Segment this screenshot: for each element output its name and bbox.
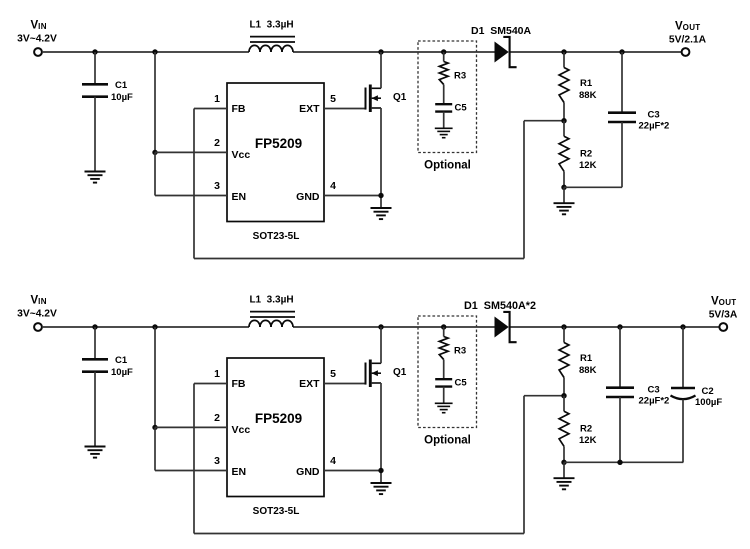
junction divider bottom (bottom) xyxy=(561,460,566,465)
label C1 (top) xyxy=(115,80,128,91)
svg-text:R2: R2 xyxy=(580,423,592,434)
pin label EN (top) xyxy=(232,191,247,203)
svg-text:L1 3.3µH: L1 3.3µH xyxy=(249,294,293,305)
node VIN terminal (bottom) xyxy=(34,323,42,331)
wire Vcc to pin 2 (bottom) xyxy=(155,426,227,428)
label R2 (top) xyxy=(580,148,592,159)
ground Q1 (top) xyxy=(371,208,392,219)
pin label FB (bottom) xyxy=(232,378,246,390)
label C3 (top) xyxy=(648,109,660,120)
junction Q1 source / GND pin (bottom) xyxy=(378,468,383,473)
svg-text:Optional: Optional xyxy=(424,160,471,172)
label Q1 (bottom) xyxy=(393,367,407,378)
pin label Vcc (top) xyxy=(232,149,251,161)
svg-text:3: 3 xyxy=(214,180,220,192)
inductor L1 (top) xyxy=(249,37,295,52)
svg-text:GND: GND xyxy=(296,466,320,478)
pin number 2 (top) xyxy=(214,137,220,149)
label FP5209 (bottom) xyxy=(255,411,302,426)
svg-text:VIN: VIN xyxy=(31,20,47,32)
label Optional (bottom) xyxy=(424,435,471,447)
ground C1 (top) xyxy=(85,172,106,183)
wire divider to ground (bottom) xyxy=(563,462,565,478)
svg-text:5: 5 xyxy=(330,368,336,380)
wire input rail (top) xyxy=(42,51,249,53)
label R2 value 12K (top) xyxy=(579,160,597,171)
wire Vcc-EN vertical (top) xyxy=(154,152,156,195)
svg-text:3V~4.2V: 3V~4.2V xyxy=(17,309,57,320)
ground divider (bottom) xyxy=(554,478,575,489)
pin number 4 (top) xyxy=(330,180,336,192)
label D1 SM540A (top) xyxy=(471,25,532,37)
junction R1/rail (bottom) xyxy=(561,324,566,329)
svg-text:VIN: VIN xyxy=(31,295,47,307)
label R1 (top) xyxy=(580,78,593,89)
pin number 3 (top) xyxy=(214,180,220,192)
svg-text:D1 SM540A*2: D1 SM540A*2 xyxy=(464,300,536,312)
junction R3/rail (bottom) xyxy=(441,324,446,329)
svg-text:FB: FB xyxy=(232,378,246,390)
svg-text:88K: 88K xyxy=(579,365,597,376)
label Optional (top) xyxy=(424,160,471,172)
svg-text:100µF: 100µF xyxy=(695,397,722,408)
wire ground rail (top) xyxy=(564,186,622,188)
svg-text:L1 3.3µH: L1 3.3µH xyxy=(249,19,293,30)
resistor R1 (bottom) xyxy=(559,327,569,396)
junction C2/rail (bottom) xyxy=(680,324,685,329)
resistor R1 (top) xyxy=(559,52,569,121)
wire feedback bottom (bottom) xyxy=(194,533,524,535)
junction Vcc pin (bottom) xyxy=(152,425,157,430)
op-amp U1 FP5209 body (bottom) xyxy=(227,358,324,497)
svg-text:5: 5 xyxy=(330,93,336,105)
junction Vcc branch (top) xyxy=(152,49,157,54)
label VIN value 3V~4.2V (bottom) xyxy=(17,309,57,320)
svg-text:2: 2 xyxy=(214,137,220,149)
label R3 (top) xyxy=(454,71,466,82)
svg-text:Q1: Q1 xyxy=(393,367,407,378)
wire rail inductor-to-diode (bottom) xyxy=(293,326,495,328)
svg-text:Optional: Optional xyxy=(424,435,471,447)
ground divider (top) xyxy=(554,203,575,214)
pin label Vcc (bottom) xyxy=(232,424,251,436)
pin number 3 (bottom) xyxy=(214,455,220,467)
optional dashed box (top) xyxy=(418,41,477,153)
svg-text:EN: EN xyxy=(232,466,247,478)
svg-text:C1: C1 xyxy=(115,80,128,91)
optional dashed box (bottom) xyxy=(418,316,477,428)
wire FB vertical left (top) xyxy=(193,109,195,259)
wire GND pin 4 (top) xyxy=(324,195,381,197)
wire feedback to divider (bottom) xyxy=(524,395,564,397)
diode D1 (bottom) xyxy=(495,312,517,342)
junction C3/rail (top) xyxy=(619,49,624,54)
svg-text:R3: R3 xyxy=(454,346,466,357)
label VOUT value 5V/2.1A (top) xyxy=(669,35,707,46)
junction divider mid (top) xyxy=(561,118,566,123)
svg-text:Vcc: Vcc xyxy=(232,424,251,436)
label C2 value 100µF (bottom) xyxy=(695,397,722,408)
wire Vcc to pin 2 (top) xyxy=(155,151,227,153)
svg-text:Vcc: Vcc xyxy=(232,149,251,161)
wire FB vertical left (bottom) xyxy=(193,384,195,534)
svg-text:C2: C2 xyxy=(702,386,714,397)
capacitor C5 (bottom) xyxy=(435,379,452,403)
svg-text:FP5209: FP5209 xyxy=(255,411,302,426)
junction Vcc pin (top) xyxy=(152,150,157,155)
pin label EXT (top) xyxy=(299,103,320,115)
node VOUT terminal (bottom) xyxy=(719,323,727,331)
svg-text:12K: 12K xyxy=(579,160,597,171)
junction R3/rail (top) xyxy=(441,49,446,54)
svg-text:C5: C5 xyxy=(455,377,468,388)
pin number 5 (top) xyxy=(330,93,336,105)
wire rail inductor-to-diode (top) xyxy=(293,51,495,53)
diode D1 (top) xyxy=(495,37,517,67)
wire divider to ground (top) xyxy=(563,187,565,203)
svg-text:EXT: EXT xyxy=(299,378,320,390)
capacitor C3 (bottom) xyxy=(606,327,634,462)
svg-text:EXT: EXT xyxy=(299,103,320,115)
label VIN (bottom) xyxy=(31,295,47,307)
resistor R3 (top) xyxy=(439,52,448,104)
pin number 1 (bottom) xyxy=(214,368,220,380)
pin label GND (top) xyxy=(296,191,320,203)
node VOUT terminal (top) xyxy=(682,48,690,56)
inductor L1 (bottom) xyxy=(249,312,295,327)
ground C1 (bottom) xyxy=(85,447,106,458)
label R2 (bottom) xyxy=(580,423,592,434)
svg-text:R1: R1 xyxy=(580,78,593,89)
label VOUT (bottom) xyxy=(711,296,736,308)
pin label GND (bottom) xyxy=(296,466,320,478)
wire feedback vertical right (top) xyxy=(523,121,525,259)
svg-text:12K: 12K xyxy=(579,435,597,446)
wire Q1 drain (top) xyxy=(380,52,382,88)
wire feedback vertical right (bottom) xyxy=(523,396,525,534)
svg-text:4: 4 xyxy=(330,180,336,192)
svg-text:R2: R2 xyxy=(580,148,592,159)
label R2 value 12K (bottom) xyxy=(579,435,597,446)
pin label EXT (bottom) xyxy=(299,378,320,390)
svg-text:1: 1 xyxy=(214,93,220,105)
transistor Q1 (top) xyxy=(366,85,382,113)
wire FB pin 1 (top) xyxy=(194,108,227,110)
label C1 value 10µF (top) xyxy=(111,92,133,103)
pin number 1 (top) xyxy=(214,93,220,105)
capacitor C1 (top) xyxy=(82,52,108,171)
junction R1/rail (top) xyxy=(561,49,566,54)
svg-text:2: 2 xyxy=(214,412,220,424)
resistor R2 (bottom) xyxy=(559,396,569,463)
wire Vcc branch vertical (bottom) xyxy=(154,327,156,427)
junction C3 bottom (bottom) xyxy=(617,460,622,465)
junction C1/rail (top) xyxy=(92,49,97,54)
wire Vcc branch vertical (top) xyxy=(154,52,156,152)
pin number 5 (bottom) xyxy=(330,368,336,380)
svg-text:D1 SM540A: D1 SM540A xyxy=(471,25,532,37)
svg-text:22µF*2: 22µF*2 xyxy=(639,396,670,407)
label C3 value 22µF*2 (top) xyxy=(639,121,670,132)
junction divider mid (bottom) xyxy=(561,393,566,398)
pin label FB (top) xyxy=(232,103,246,115)
label VOUT (top) xyxy=(675,21,700,33)
pin number 2 (bottom) xyxy=(214,412,220,424)
junction Q1 drain (top) xyxy=(378,49,383,54)
svg-text:Q1: Q1 xyxy=(393,92,407,103)
junction Q1 source / GND pin (top) xyxy=(378,193,383,198)
svg-text:SOT23-5L: SOT23-5L xyxy=(253,506,300,517)
wire FB pin 1 (bottom) xyxy=(194,383,227,385)
capacitor C1 (bottom) xyxy=(82,327,108,446)
label SOT23-5L (bottom) xyxy=(253,506,300,517)
wire rail diode-to-output (bottom) xyxy=(510,326,720,328)
label L1 3.3µH (top) xyxy=(249,19,293,30)
junction C3/rail (bottom) xyxy=(617,324,622,329)
label SOT23-5L (top) xyxy=(253,231,300,242)
wire Vcc-EN vertical (bottom) xyxy=(154,427,156,470)
wire GND pin 4 (bottom) xyxy=(324,470,381,472)
svg-text:3V~4.2V: 3V~4.2V xyxy=(17,34,57,45)
label VIN value 3V~4.2V (top) xyxy=(17,34,57,45)
svg-text:1: 1 xyxy=(214,368,220,380)
junction Q1 drain (bottom) xyxy=(378,324,383,329)
svg-text:5V/2.1A: 5V/2.1A xyxy=(669,35,707,46)
wire EXT to gate (top) xyxy=(324,108,366,110)
ground C5 (top) xyxy=(435,128,453,137)
svg-text:10µF: 10µF xyxy=(111,367,133,378)
wire feedback bottom (top) xyxy=(194,258,524,260)
label D1 SM540A*2 (bottom) xyxy=(464,300,536,312)
label R3 (bottom) xyxy=(454,346,466,357)
pin number 4 (bottom) xyxy=(330,455,336,467)
wire input rail (bottom) xyxy=(42,326,249,328)
wire Q1 source to ground (top) xyxy=(380,108,382,208)
label C5 (top) xyxy=(455,102,468,113)
svg-text:R1: R1 xyxy=(580,353,593,364)
label R1 (bottom) xyxy=(580,353,593,364)
svg-text:C5: C5 xyxy=(455,102,468,113)
svg-text:C3: C3 xyxy=(648,384,660,395)
svg-text:VOUT: VOUT xyxy=(675,21,700,33)
svg-text:GND: GND xyxy=(296,191,320,203)
label C2 (bottom) xyxy=(702,386,714,397)
label C5 (bottom) xyxy=(455,377,468,388)
label VIN (top) xyxy=(31,20,47,32)
capacitor C5 (top) xyxy=(435,104,452,128)
svg-text:C3: C3 xyxy=(648,109,660,120)
svg-text:FP5209: FP5209 xyxy=(255,136,302,151)
svg-text:88K: 88K xyxy=(579,90,597,101)
svg-text:4: 4 xyxy=(330,455,336,467)
svg-text:FB: FB xyxy=(232,103,246,115)
wire Q1 source to ground (bottom) xyxy=(380,383,382,483)
svg-text:10µF: 10µF xyxy=(111,92,133,103)
label Q1 (top) xyxy=(393,92,407,103)
svg-text:R3: R3 xyxy=(454,71,466,82)
svg-text:3: 3 xyxy=(214,455,220,467)
label C3 value 22µF*2 (bottom) xyxy=(639,396,670,407)
label R1 value 88K (top) xyxy=(579,90,597,101)
wire feedback to divider (top) xyxy=(524,120,564,122)
junction Vcc branch (bottom) xyxy=(152,324,157,329)
wire EXT to gate (bottom) xyxy=(324,383,366,385)
transistor Q1 (bottom) xyxy=(366,360,382,388)
op-amp U1 FP5209 body (top) xyxy=(227,83,324,222)
junction C1/rail (bottom) xyxy=(92,324,97,329)
svg-text:VOUT: VOUT xyxy=(711,296,736,308)
wire rail diode-to-output (top) xyxy=(510,51,682,53)
ground Q1 (bottom) xyxy=(371,483,392,494)
capacitor C3 (top) xyxy=(608,52,636,187)
label FP5209 (top) xyxy=(255,136,302,151)
resistor R3 (bottom) xyxy=(439,327,448,379)
capacitor C2 (bottom) xyxy=(671,327,696,462)
wire ground rail (bottom) xyxy=(564,461,683,463)
ground C5 (bottom) xyxy=(435,403,453,412)
svg-text:C1: C1 xyxy=(115,355,128,366)
pin label EN (bottom) xyxy=(232,466,247,478)
wire Q1 drain (bottom) xyxy=(380,327,382,363)
label R1 value 88K (bottom) xyxy=(579,365,597,376)
label C1 (bottom) xyxy=(115,355,128,366)
node VIN terminal (top) xyxy=(34,48,42,56)
label C1 value 10µF (bottom) xyxy=(111,367,133,378)
label VOUT value 5V/3A (bottom) xyxy=(709,310,738,321)
svg-text:EN: EN xyxy=(232,191,247,203)
svg-text:5V/3A: 5V/3A xyxy=(709,310,738,321)
wire EN to pin 3 (top) xyxy=(155,195,227,197)
label C3 (bottom) xyxy=(648,384,660,395)
resistor R2 (top) xyxy=(559,121,569,188)
wire EN to pin 3 (bottom) xyxy=(155,470,227,472)
label L1 3.3µH (bottom) xyxy=(249,294,293,305)
svg-text:22µF*2: 22µF*2 xyxy=(639,121,670,132)
svg-text:SOT23-5L: SOT23-5L xyxy=(253,231,300,242)
junction divider bottom (top) xyxy=(561,185,566,190)
